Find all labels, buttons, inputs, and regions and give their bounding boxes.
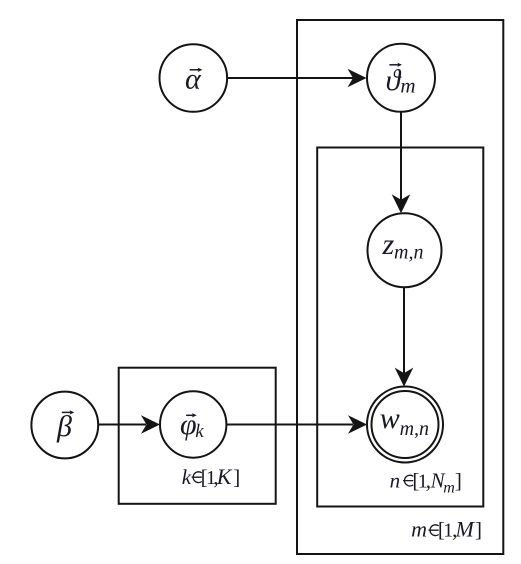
- arrowhead into w: [348, 415, 367, 434]
- svg-text:m: m: [400, 73, 415, 97]
- node z_mn: [368, 213, 442, 287]
- svg-text:m,n: m,n: [400, 418, 429, 440]
- node theta_m: [367, 44, 435, 112]
- wire z to w: [403, 287, 405, 374]
- arrowhead into phi: [141, 415, 160, 434]
- wire beta to phi: [98, 424, 146, 426]
- plate K label: k in [1,K]: [182, 464, 241, 489]
- wire phi to w: [226, 424, 353, 426]
- plate N (inner word plate): [317, 148, 483, 507]
- wire theta to z: [400, 112, 402, 200]
- vector arrow over phi: [186, 413, 197, 417]
- svg-text:k: k: [195, 421, 204, 442]
- plate M label: m in [1,M]: [411, 517, 482, 542]
- arrowhead into w: [395, 368, 414, 387]
- svg-text:]: ]: [455, 469, 462, 493]
- svg-text:α: α: [185, 63, 202, 96]
- vector arrow over beta: [62, 410, 74, 414]
- node alpha: [160, 44, 228, 112]
- svg-text:k: k: [182, 465, 192, 489]
- svg-text:m,n: m,n: [394, 242, 423, 264]
- plate K (topic plate): [119, 368, 276, 504]
- svg-text:M: M: [455, 517, 476, 542]
- plate M (outer document plate): [297, 20, 503, 554]
- inner circle of w: [372, 391, 439, 458]
- node beta: [31, 392, 98, 459]
- arrowhead into theta: [348, 69, 367, 88]
- svg-text:φ: φ: [180, 408, 197, 441]
- wire alpha to theta: [227, 77, 353, 79]
- svg-text:]: ]: [475, 518, 482, 542]
- plate N label: n in [1,N_m]: [390, 469, 462, 497]
- svg-text:m: m: [443, 480, 455, 497]
- vector arrow over theta: [389, 63, 402, 67]
- svg-text:n: n: [390, 469, 401, 493]
- node phi_k: [160, 391, 226, 457]
- svg-text:w: w: [380, 402, 400, 435]
- vector arrow over alpha: [190, 68, 203, 72]
- svg-text:m: m: [411, 517, 427, 542]
- arrowhead into z: [392, 194, 411, 213]
- svg-text:z: z: [382, 228, 395, 261]
- svg-text:K: K: [216, 464, 233, 489]
- svg-text:]: ]: [233, 465, 240, 489]
- node w_mn (observed, double circle): [367, 387, 443, 463]
- svg-text:β: β: [56, 410, 72, 443]
